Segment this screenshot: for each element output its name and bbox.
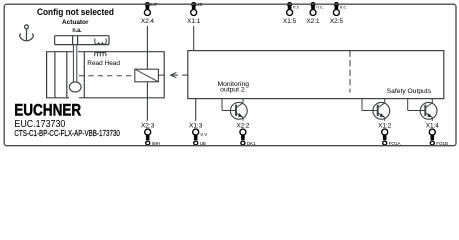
svg-text:X1:5: X1:5 bbox=[283, 18, 297, 25]
transistor Q2 (FO1A) bbox=[362, 99, 390, 121]
interlock symbol bbox=[135, 69, 164, 82]
wire X1:3 to block bbox=[195, 99, 197, 121]
dashed divider bbox=[349, 51, 351, 93]
terminal X1:4 (bottom, FO1B) bbox=[426, 123, 448, 147]
terminal X1:3 (bottom, 0V / UB) bbox=[189, 123, 207, 147]
svg-text:X2:4: X2:4 bbox=[141, 18, 155, 25]
svg-text:CTS-C1-BP-CC-FLX-AP-VBB-173730: CTS-C1-BP-CC-FLX-AP-VBB-173730 bbox=[14, 129, 120, 138]
terminal X1:5 (top, n.c) bbox=[283, 3, 300, 25]
border frame bbox=[4, 4, 456, 146]
svg-text:X1:1: X1:1 bbox=[187, 18, 201, 25]
actuator ball bbox=[69, 82, 81, 92]
terminal X2:5 (top, n.c.) bbox=[330, 3, 347, 25]
svg-text:Config not selected: Config not selected bbox=[37, 7, 114, 17]
svg-text:n.c: n.c bbox=[293, 5, 300, 10]
svg-text:X2:1: X2:1 bbox=[306, 18, 320, 25]
anchor symbol bbox=[20, 25, 34, 41]
svg-text:output 2: output 2 bbox=[220, 88, 245, 94]
actuator bar bbox=[55, 36, 109, 45]
svg-text:n.c.: n.c. bbox=[340, 5, 347, 10]
terminal X2:3 (bottom, IMH) bbox=[141, 123, 160, 147]
svg-text:X2:5: X2:5 bbox=[330, 18, 344, 25]
read head box bbox=[47, 52, 165, 98]
transistor Q3 (FO1B) bbox=[408, 99, 437, 121]
actuator stem bbox=[73, 45, 76, 83]
svg-text:Actuator: Actuator bbox=[62, 20, 89, 26]
dashed signal line bbox=[79, 75, 135, 77]
terminal X1:2 (bottom, FO1A) bbox=[378, 123, 400, 147]
svg-text:EUCHNER: EUCHNER bbox=[14, 102, 81, 120]
transistor Q1 (DK1) bbox=[222, 99, 247, 121]
terminal X2:1 (top, n.c.) bbox=[306, 3, 323, 25]
actuator coil L1 bbox=[95, 38, 106, 44]
wire X1:1 to block bbox=[193, 26, 195, 51]
arrow to read head bbox=[171, 73, 188, 78]
wire X2:4 to X2:3 through interlock bbox=[146, 26, 148, 121]
svg-text:n.c.: n.c. bbox=[316, 5, 323, 10]
svg-text:EUC.173730: EUC.173730 bbox=[14, 119, 65, 130]
svg-text:Safety Outputs: Safety Outputs bbox=[387, 88, 431, 95]
terminal X2:2 (bottom, DK1) bbox=[236, 123, 256, 147]
svg-text:Read Head: Read Head bbox=[87, 60, 120, 67]
svg-text:0 V: 0 V bbox=[201, 132, 208, 137]
read head coil L2 bbox=[95, 52, 106, 56]
terminal X2:4 (top, IMP) bbox=[141, 2, 158, 25]
svg-text:n.a.: n.a. bbox=[72, 28, 81, 34]
terminal X1:1 (top, UB) bbox=[187, 2, 202, 25]
main device block bbox=[188, 51, 444, 99]
